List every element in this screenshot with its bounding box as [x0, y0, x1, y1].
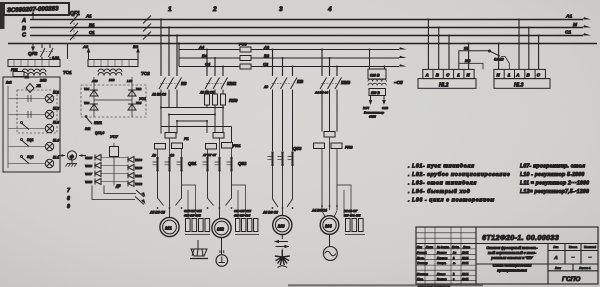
svg-text:4: 4: [327, 6, 332, 13]
isolator QS3: [268, 151, 294, 166]
svg-text:. L03- стоп шпинделя: . L03- стоп шпинделя: [408, 181, 477, 187]
bus line C1: [30, 35, 583, 37]
svg-text:V24: V24: [136, 101, 142, 105]
wire HL3 feed N: [498, 44, 500, 70]
svg-text:2: 2: [212, 6, 217, 13]
svg-text:V210: V210: [135, 166, 142, 170]
contactor KM3: [320, 78, 342, 132]
rectifier YC1 dashed box: [81, 85, 146, 117]
arrow link 2: [135, 197, 144, 205]
svg-text:1: 1: [168, 6, 172, 13]
svg-text:Смирн.: Смирн.: [437, 261, 447, 265]
terminal block HL2: [418, 69, 476, 88]
contactor KB feeds: [273, 50, 293, 77]
svg-text:ГСПО: ГСПО: [562, 276, 580, 283]
svg-text:В1: В1: [89, 23, 95, 28]
wire drop phase A to K6: [160, 20, 162, 77]
title block frame: [416, 227, 598, 284]
svg-text:—: —: [572, 255, 575, 259]
svg-text:24В: 24В: [39, 79, 47, 83]
supply arrow up: [31, 11, 35, 19]
machine icon arrows M3: [275, 235, 290, 255]
svg-text:јœ: јœ: [452, 250, 457, 254]
svg-text:ТС1: ТС1: [63, 70, 72, 75]
title block left grid: [416, 227, 476, 284]
wire HL3 feed A: [518, 20, 520, 70]
svg-text:КВ: КВ: [297, 79, 304, 84]
svg-text:К6: К6: [181, 81, 187, 86]
svg-text:принципиальная: принципиальная: [497, 269, 527, 273]
diode V212: [128, 181, 134, 187]
transformer TC2 primary: [88, 60, 138, 67]
svg-text:Изм: Изм: [417, 245, 422, 249]
wire A2 arrow to TC2: [82, 44, 90, 60]
svg-text:. L01- пуск шпинделя: . L01- пуск шпинделя: [408, 164, 475, 170]
bus line B1: [30, 27, 583, 29]
svg-text:М4: М4: [325, 223, 332, 229]
svg-text:. L04- быстрый ход: . L04- быстрый ход: [408, 188, 471, 195]
transformer TC2 secondary winding: [98, 69, 122, 76]
svg-text:Волков: Волков: [437, 277, 447, 281]
transformer T5 secondary 110V: [369, 89, 386, 96]
svg-text:А3 В3 С3: А3 В3 С3: [151, 93, 166, 97]
svg-text:С2Н С2Г С15: С2Н С2Г С15: [184, 209, 202, 213]
svg-text:А2: А2: [82, 44, 89, 49]
machine icon pump M4: [323, 234, 337, 260]
svg-text:ЕL1: ЕL1: [53, 91, 59, 95]
svg-text:Н.контр: Н.контр: [417, 272, 428, 276]
motor M3: [273, 215, 292, 234]
lamp panel box: [3, 77, 60, 172]
machine icon pump M2: [216, 238, 228, 267]
svg-text:Подп.: Подп.: [452, 245, 460, 249]
svg-text:КМ1: КМ1: [94, 120, 103, 125]
svg-text:А7 В7 С7: А7 В7 С7: [202, 153, 217, 157]
lamp EL2: [45, 110, 53, 118]
svg-text:12.81: 12.81: [462, 272, 469, 276]
breaker QF2: [40, 44, 53, 60]
svg-text:12.81: 12.81: [462, 256, 469, 260]
breaker QF1: [70, 15, 78, 40]
svg-text:С2: С2: [263, 62, 269, 67]
svg-text:НL2: НL2: [439, 82, 449, 88]
svg-text:ф: ф: [70, 153, 74, 159]
svg-text:А4 В4 С4: А4 В4 С4: [311, 209, 327, 213]
svg-text:В2: В2: [264, 53, 270, 58]
wire HL2 feed B: [438, 28, 440, 70]
wire TC1 right lead: [67, 44, 69, 60]
svg-text:F1: F1: [184, 136, 189, 141]
scan streak bottom: [288, 284, 483, 286]
transformer T5 taps: [370, 50, 385, 70]
svg-text:2Н: 2Н: [463, 47, 469, 51]
svg-text:~С5: ~С5: [394, 80, 403, 85]
motor M4: [320, 216, 339, 235]
wire routing to M1 column: [104, 186, 136, 194]
wire HL3 feed C: [538, 36, 540, 70]
svg-text:V209: V209: [135, 158, 142, 162]
svg-text:А9: А9: [263, 85, 268, 89]
bus line A1: [30, 19, 583, 21]
contactor KM2: [205, 78, 228, 95]
motor M2: [208, 171, 232, 238]
thermal relay FR3: [314, 132, 343, 149]
resistor bank M1: [182, 185, 211, 235]
machine icon mill: [190, 240, 208, 259]
svg-text:L10 - регулятор 5-2000: L10 - регулятор 5-2000: [520, 172, 584, 178]
svg-text:Листов 1: Листов 1: [579, 266, 591, 270]
svg-text:ротным столом и ЧПУ: ротным столом и ЧПУ: [490, 256, 533, 260]
svg-text:. L02- грубое позиционирование: . L02- грубое позиционирование: [408, 171, 510, 178]
svg-text:А1: А1: [85, 14, 92, 19]
thermal relay F1: [155, 133, 183, 150]
sub-bus arrowheads: [399, 47, 407, 66]
diode V216: [95, 163, 101, 169]
diode V21: [90, 90, 98, 96]
svg-text:М1: М1: [165, 225, 172, 231]
svg-text:243: 243: [464, 59, 471, 63]
arrow link 1: [136, 190, 144, 197]
svg-text:12.81: 12.81: [462, 250, 469, 254]
svg-text:А: А: [553, 255, 557, 260]
bus line N (4th): [8, 43, 597, 45]
diode V210: [128, 165, 134, 171]
junction dots HL feeds: [427, 19, 539, 45]
stamp box (drawing number, top-left): [0, 2, 69, 29]
svg-text:Q63,8: Q63,8: [95, 131, 104, 135]
svg-text:ный вертикальный с пово-: ный вертикальный с пово-: [488, 251, 537, 255]
svg-text:L07- программир. стол: L07- программир. стол: [520, 164, 586, 170]
contactor K6: [159, 78, 182, 108]
svg-text:љ: љ: [452, 262, 456, 265]
svg-text:QF2: QF2: [28, 51, 38, 57]
wire QS1 leads: [158, 138, 182, 157]
switch QH: [21, 122, 30, 130]
svg-text:НL1: НL1: [53, 156, 59, 160]
svg-text:ЕL2: ЕL2: [53, 107, 59, 111]
svg-text:V218: V218: [85, 180, 92, 184]
wire lamp rows: [8, 99, 45, 164]
svg-text:40Р 40З 40Е: 40Р 40З 40Е: [343, 214, 361, 218]
sub-bus line C4: [179, 66, 399, 68]
contactor KB: [271, 78, 298, 152]
svg-text:С1: С1: [89, 30, 95, 35]
svg-text:ЕL4: ЕL4: [53, 139, 59, 143]
svg-text:1н2: 1н2: [6, 81, 12, 85]
svg-text:L11 = регулятор 2···1600: L11 = регулятор 2···1600: [520, 181, 589, 187]
svg-text:Схема электрическая: Схема электрическая: [493, 264, 532, 268]
svg-text:2П 2Л 43Г: 2П 2Л 43Г: [343, 209, 358, 213]
svg-text:QS1: QS1: [188, 161, 197, 166]
svg-text:А5 В5 С5: А5 В5 С5: [149, 211, 165, 215]
svg-text:Лист: Лист: [425, 245, 434, 249]
wire M4 column: [322, 137, 337, 211]
svg-text:Разраб.: Разраб.: [417, 250, 427, 254]
svg-text:FR1: FR1: [233, 143, 241, 148]
resistor R50: [205, 94, 226, 105]
inner dashed box: [17, 90, 57, 133]
svg-text:Пров.: Пров.: [417, 256, 425, 260]
svg-text:Лит.: Лит.: [553, 245, 558, 249]
svg-text:FU5: FU5: [239, 42, 247, 47]
svg-text:SQ2: SQ2: [27, 155, 34, 159]
sub-bus line B4: [179, 57, 399, 59]
sub-bus line A4: [179, 49, 399, 51]
svg-text:12.81: 12.81: [462, 277, 469, 281]
wire HL2 feed A: [427, 20, 429, 70]
svg-text:С26 С27 С25: С26 С27 С25: [234, 209, 251, 213]
svg-text:110 В: 110 В: [371, 91, 380, 95]
switch SQ2: [21, 156, 30, 164]
svg-text:43б 48Р 43б: 43б 48Р 43б: [233, 214, 250, 218]
motor symbol small (f): [58, 151, 86, 160]
svg-text:V23: V23: [84, 101, 90, 105]
lamp EL3: [45, 124, 53, 132]
svg-text:В2: В2: [133, 44, 139, 49]
wire diode matrix: [101, 158, 128, 182]
svg-text:V212: V212: [135, 182, 142, 186]
svg-text:В2Ч: В2Ч: [363, 106, 370, 110]
title description: [486, 246, 538, 273]
contactor KM2 feeds: [207, 50, 223, 77]
svg-text:Д5: Д5: [115, 184, 120, 188]
svg-text:8: 8: [67, 196, 70, 202]
machine icon fan M3: [275, 250, 290, 268]
arrowheads right bus: [583, 17, 591, 35]
svg-text:12.81: 12.81: [462, 261, 469, 265]
svg-text:6Т12Ф20-1. 00.00033: 6Т12Ф20-1. 00.00033: [482, 233, 559, 242]
svg-text:Петров: Петров: [437, 256, 448, 260]
wire HL3 feed B: [528, 28, 530, 70]
svg-text:А2: А2: [263, 45, 270, 50]
transformer T5 windings: [368, 79, 386, 85]
switch SQ1: [21, 139, 30, 147]
svg-text:С0: С0: [170, 154, 174, 158]
svg-text:43Н 43Р 43Б: 43Н 43Р 43Б: [183, 214, 201, 218]
svg-text:М3: М3: [278, 223, 285, 229]
transformer TC1 primary: [8, 60, 60, 67]
transformer T5 primary 380V: [368, 69, 386, 79]
svg-text:R50: R50: [229, 98, 238, 103]
wire HL2 feed C: [448, 36, 450, 70]
svg-text:С2В: С2В: [382, 106, 389, 110]
svg-text:Дата: Дата: [462, 245, 471, 249]
wire drop phase B to K6: [168, 28, 170, 77]
switch SA13 loop: [459, 47, 510, 70]
svg-text:QF1: QF1: [70, 11, 80, 17]
svg-text:Станок фрезерный консоль-: Станок фрезерный консоль-: [486, 246, 538, 250]
svg-text:А: А: [21, 18, 26, 24]
svg-text:М2: М2: [217, 226, 224, 232]
lamp HL1: [45, 159, 53, 167]
svg-text:QS3: QS3: [293, 146, 302, 151]
contact KM1: [85, 116, 92, 124]
title small cells: [553, 245, 596, 270]
resistor bank M2: [232, 185, 260, 235]
capacitor marks inside dashed box: [28, 95, 31, 118]
svg-text:Иванов: Иванов: [437, 250, 447, 254]
wire T5 output arrows: [369, 96, 386, 106]
contactor KM3 feeds: [322, 50, 337, 77]
svg-text:FR3: FR3: [345, 145, 353, 150]
svg-text:А4 В4 С4: А4 В4 С4: [314, 91, 329, 95]
svg-text:QS2: QS2: [238, 161, 247, 166]
motor M1: [158, 171, 182, 237]
wire rect leads: [94, 77, 132, 117]
lamp EL4: [45, 142, 53, 150]
isolator QS2: [202, 138, 233, 172]
svg-text:9: 9: [67, 204, 70, 210]
svg-text:ТС2: ТС2: [141, 71, 150, 76]
diode V215: [95, 155, 101, 161]
svg-text:SA13: SA13: [494, 58, 504, 62]
svg-text:Х1: Х1: [36, 84, 41, 88]
svg-text:V215: V215: [85, 156, 92, 160]
svg-text:V21: V21: [84, 87, 90, 91]
svg-text:А8 В8 С8: А8 В8 С8: [262, 211, 278, 215]
connector X1: [26, 84, 34, 93]
svg-text:V216: V216: [85, 164, 92, 168]
svg-text:V217: V217: [85, 172, 92, 176]
wire crossover mesh K6/KM2: [160, 105, 232, 143]
svg-text:—: —: [589, 255, 592, 259]
relay coil K: [110, 147, 119, 157]
wire HL2 feed N: [468, 44, 470, 70]
svg-text:В: В: [22, 26, 26, 32]
svg-text:380 В: 380 В: [370, 74, 380, 78]
svg-text:А4: А4: [198, 45, 205, 50]
svg-text:Утв.: Утв.: [417, 277, 424, 281]
thermal relay FR1: [206, 133, 233, 150]
svg-text:А: А: [425, 73, 429, 78]
isolator QS1: [153, 157, 183, 172]
svg-text:№ докум.: № докум.: [437, 245, 450, 249]
svg-text:V22: V22: [136, 87, 142, 91]
wire drop phase C to K6: [176, 36, 178, 77]
svg-text:А1: А1: [565, 14, 572, 20]
diode V211: [128, 173, 134, 179]
ground symbol: [65, 160, 77, 167]
svg-text:КМ2: КМ2: [227, 81, 237, 86]
svg-text:УС7: УС7: [110, 134, 119, 139]
diode V218: [95, 179, 101, 185]
wire B2 arrow to TC2: [133, 44, 140, 60]
svg-text:А: А: [515, 73, 519, 78]
resistor bank M4: [337, 185, 365, 235]
svg-text:L12= регулятор7,5-·1200: L12= регулятор7,5-·1200: [520, 189, 589, 195]
diode V23: [90, 104, 98, 110]
sub-bus feed bend: [178, 44, 180, 67]
svg-text:КМ3: КМ3: [341, 80, 351, 85]
diode V24: [128, 104, 136, 110]
svg-text:Лист: Лист: [555, 266, 562, 270]
svg-text:А0: А0: [151, 154, 156, 158]
junction dots K6 feed: [160, 18, 178, 36]
svg-text:3: 3: [279, 6, 283, 13]
svg-text:. L06 - цикл с повторением: . L06 - цикл с повторением: [408, 198, 495, 204]
svg-text:ЭМП: ЭМП: [369, 115, 377, 119]
supply arrow down: [31, 44, 35, 52]
transformer TC1 secondary winding: [22, 69, 46, 76]
diode V217: [95, 171, 101, 177]
svg-text:С4: С4: [205, 62, 211, 67]
svg-text:Масштаб: Масштаб: [584, 245, 596, 249]
svg-text:Т.контр: Т.контр: [417, 261, 428, 265]
svg-text:А16: А16: [91, 79, 98, 83]
svg-text:Масса: Масса: [569, 245, 578, 249]
svg-text:SQ1: SQ1: [27, 138, 34, 142]
svg-text:V211: V211: [135, 174, 142, 178]
terminal block HL3: [494, 69, 550, 88]
svg-text:С1: С1: [565, 30, 571, 36]
svg-text:Котов: Котов: [437, 272, 446, 276]
diode V209: [128, 157, 134, 163]
svg-text:НL3: НL3: [514, 82, 524, 88]
title scribbles rows: [417, 245, 471, 281]
diode V22: [128, 90, 136, 96]
svg-text:29В: 29В: [108, 78, 115, 82]
svg-text:ЕL3: ЕL3: [53, 121, 59, 125]
svg-text:342: 342: [85, 127, 91, 131]
lamp EL1: [45, 94, 53, 102]
isolator slashes on bus: [143, 16, 151, 40]
